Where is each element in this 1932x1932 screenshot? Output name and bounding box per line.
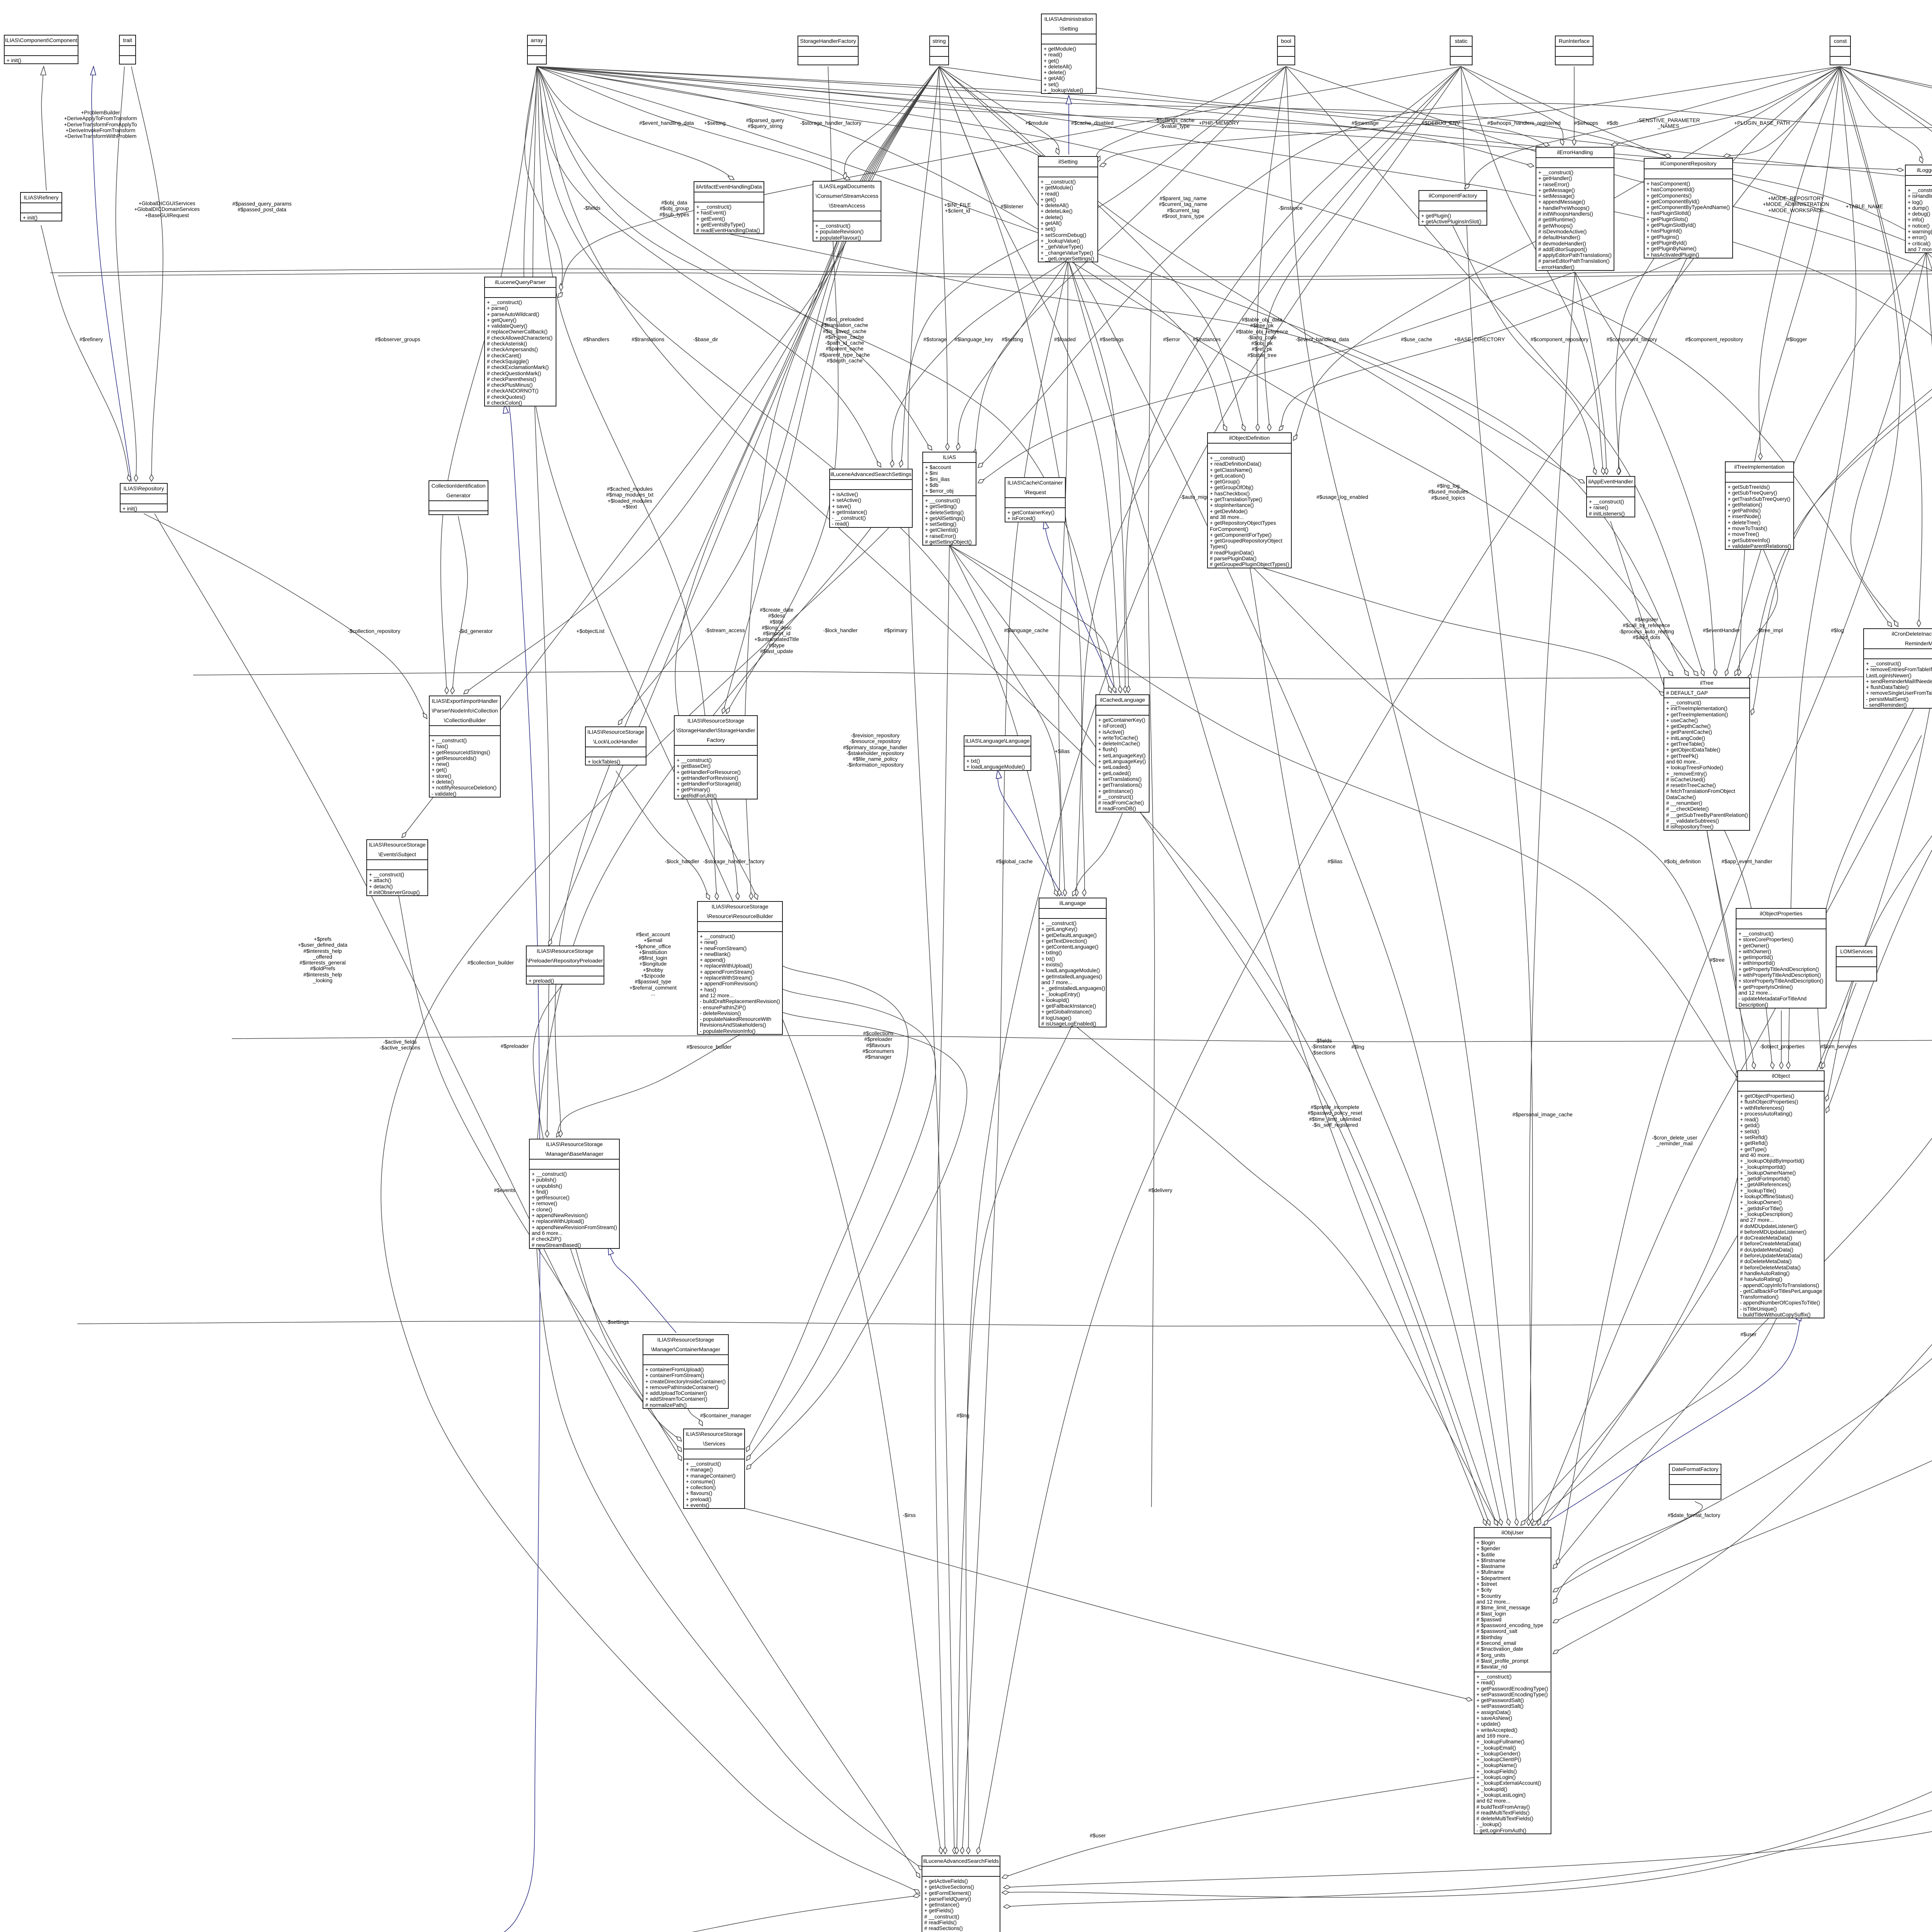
wire ResourceBuilder-BaseManager — [556, 1034, 740, 1137]
label #$register — [1619, 617, 1674, 640]
wire string-ilErrorHandling — [939, 66, 1549, 145]
label #$whoops — [1574, 120, 1598, 126]
wire ilObjectDefinition-ilTree — [1249, 564, 1665, 696]
label #$component_repository — [1531, 337, 1588, 342]
label #$event_handling_data — [639, 120, 694, 126]
label #$translations — [632, 337, 665, 342]
class RS_SHF — [674, 715, 758, 799]
wire ilObject-ilObjUser — [1532, 1311, 1781, 1526]
label #$parent_tag_name — [1159, 196, 1207, 219]
label #$component_factory — [1607, 337, 1657, 342]
wire ilSetting-AdminSetting-inherit — [1068, 95, 1069, 155]
wire ilErrorHandling-ilTree — [1575, 272, 1716, 676]
wire ilLogger-ilRbacAdmin — [1926, 252, 1932, 772]
wire array-ilComponentRepository — [537, 66, 1671, 156]
label #$table_obj_data — [1236, 317, 1288, 358]
label #$DEBUG_ENV — [1422, 120, 1460, 126]
label #$app_event_handler — [1721, 859, 1772, 864]
wire ilObjectProperties-ilObject — [1781, 1010, 1782, 1069]
label -$object_properties — [1760, 1044, 1804, 1049]
wire ILIAS-ilObject — [949, 545, 1740, 1082]
wire bus-4 — [232, 1036, 1932, 1042]
class BaseManager — [529, 1139, 620, 1249]
wire LOMServices-ilObject — [1822, 983, 1856, 1069]
wire const-ilObjectDefinition — [1293, 66, 1840, 440]
wire string-ilTree — [939, 66, 1698, 676]
label #$resource_builder — [687, 1044, 731, 1050]
wire bus-5 — [77, 1321, 1797, 1326]
wire const-ilAppEventHandler — [1616, 66, 1840, 474]
wire DateFormatFactory-ilObjUser — [1553, 1501, 1702, 1604]
label +$prefs — [298, 936, 347, 983]
wire string-ilObjUser — [939, 66, 1509, 1526]
label -$lock_handler — [665, 859, 699, 864]
wire ilTree-ilObjUser — [1521, 830, 1748, 1526]
wire bus-3 — [193, 672, 1932, 679]
class StorageHandlerFactory — [798, 36, 859, 65]
wire ILIAS-SearchFields — [935, 545, 949, 1854]
label -$cron_delete_user — [1652, 1135, 1697, 1147]
wire string-StreamAccess — [844, 66, 939, 179]
label #$events — [494, 1187, 515, 1193]
label #$preloader — [501, 1043, 529, 1049]
wire ilLanguage-LangLanguage-inherit — [998, 770, 1063, 896]
wire ilLanguage-ilObjUser — [1073, 1024, 1498, 1526]
wire ContainerManager-Services — [685, 1405, 702, 1426]
label #$error — [1163, 337, 1180, 342]
label #$loaded — [1054, 337, 1076, 342]
wire array-ilCron — [537, 66, 1892, 627]
wire bool-ilObjectDefinition — [1257, 66, 1286, 431]
wire Services-ilObjUser — [714, 1501, 1472, 1700]
wire LockHandler-ResourceBuilder — [616, 771, 709, 900]
wire AdvQueryParser-SearchFields — [442, 1895, 920, 1932]
wire bool-ilTree — [1286, 66, 1704, 676]
label #$profile_incomplete — [1308, 1104, 1362, 1128]
wire ilDBInterface-SearchFields — [1002, 102, 1932, 1897]
label #$personal_image_cache — [1512, 1112, 1573, 1117]
label #$settings — [1100, 337, 1124, 342]
class Repository — [120, 483, 168, 512]
wire string-ResourceBuilder — [675, 66, 939, 900]
class string — [929, 36, 949, 65]
label #$primary — [884, 628, 907, 633]
label -$auto_migrate — [1180, 494, 1215, 500]
label #$logger — [1787, 337, 1807, 342]
wire const-ilRbacAdmin2 — [1840, 66, 1932, 772]
wire ilSetting-ilObjUser — [1068, 260, 1486, 1526]
wire ilDBInterface-ILIAS — [978, 102, 1932, 468]
wire ilErrorHandling-ilAppEventHandler — [1575, 272, 1607, 474]
wire ilObjectDIC-ilObject — [1817, 226, 1932, 1069]
class ilArtifact — [694, 181, 764, 234]
label -$base_dir — [693, 337, 718, 342]
wire ilLogger-ilObjUser — [1544, 252, 1932, 1526]
wire const-ilComponentRepository2 — [1723, 66, 1840, 156]
wire ilTree-ilObject — [1707, 830, 1754, 1069]
class ilAppEventHandler — [1586, 476, 1635, 517]
label #$create_date — [754, 607, 799, 654]
wire array-SearchSettings — [537, 66, 881, 467]
wire static-ilAppEventHandler — [1461, 66, 1604, 474]
class StreamAccess — [813, 181, 881, 241]
class Services — [683, 1429, 745, 1509]
class ilComponentFactory — [1418, 190, 1487, 226]
wire string-Subject — [402, 66, 939, 838]
wire static-SearchFields — [966, 66, 1461, 1854]
wire AdvQueryParser-QueryParser-inherit — [398, 402, 540, 1932]
label #$cache_disabled — [1071, 120, 1114, 126]
label -$collection_repository — [348, 628, 400, 634]
wire string-ILIAS — [939, 66, 947, 450]
wire Subject-Services — [397, 889, 682, 1452]
label +ProblemBuilder — [64, 110, 137, 139]
label #$date_format_factory — [1668, 1512, 1720, 1518]
class bool — [1277, 36, 1295, 65]
label +$objectList — [577, 628, 605, 634]
label #$refinery — [80, 337, 103, 342]
wire StorageHandlerFactory-RS_SHF — [726, 66, 838, 714]
wire array-StreamAccess — [537, 66, 850, 180]
wire ilSetting-ilTree — [1068, 260, 1673, 676]
wire ilSetting-ILIAS — [957, 260, 1068, 450]
wire const-SearchFields — [978, 66, 1840, 1854]
class DateFormatFactory — [1669, 1464, 1721, 1500]
wire trait-Repository-2 — [131, 66, 163, 481]
label #$lom_services — [1820, 1044, 1857, 1049]
wire ilComponentRepository-ilObjectDefinition — [1279, 255, 1688, 431]
wire static-ilObjectDefinition — [1265, 66, 1461, 431]
label #$language_key — [954, 337, 993, 342]
wire static-ilObjUser — [1461, 66, 1532, 1526]
label #$user — [1740, 1332, 1757, 1337]
wire ilRbacAdmin-ilObjUser — [1553, 907, 1932, 1654]
label +$INI_FILE — [944, 202, 971, 214]
wire ilObjUser-SearchFields — [1002, 1777, 1474, 1878]
class RunInterface — [1555, 36, 1594, 65]
wire array-ilObjUser — [537, 66, 1498, 1526]
wire bool-ILIAS — [974, 66, 1286, 456]
wire SearchSettings-SearchFields-1 — [536, 528, 923, 1870]
wire SearchSettings-SearchFields-2 — [381, 528, 920, 1893]
class ilObjectProperties — [1736, 908, 1827, 1009]
wire array-BaseManager — [533, 66, 549, 1137]
label #$passed_query_params — [232, 201, 291, 213]
wire bus-2 — [58, 273, 1932, 280]
wire StreamAccess-ResourceBuilder — [745, 235, 847, 900]
label +$setting — [704, 120, 726, 126]
label #$global_cache — [996, 859, 1032, 864]
class ResourceBuilder — [697, 901, 783, 1035]
label #$log — [1831, 628, 1844, 633]
label +$module — [1025, 120, 1048, 126]
wire ilSetting-ilCachedLanguage — [1068, 260, 1125, 693]
label #$eventHandler — [1703, 628, 1740, 633]
wire static-ilErrorHandling — [1461, 66, 1563, 145]
class CollectionBuilder — [429, 696, 501, 798]
wire static-ilLanguage — [1082, 66, 1461, 896]
class AdminSetting — [1041, 14, 1097, 94]
label -$fields — [1311, 1038, 1336, 1056]
wire array-ILIAS — [537, 66, 932, 450]
wire string-LockHandler — [618, 66, 939, 725]
wire const-ilSetting — [1100, 66, 1840, 166]
class SearchSettings — [829, 469, 913, 528]
wire string-ilSetting — [939, 66, 1059, 155]
class ilTreeImplementation — [1725, 461, 1794, 550]
wire ilRbacReview-SearchFields — [1003, 572, 1932, 1907]
label #$db — [1607, 120, 1618, 126]
class ContainerManager — [643, 1334, 729, 1409]
wire ILIAS-ilObjUser — [949, 545, 1490, 1526]
wire Repository-Component-inherit — [92, 66, 131, 481]
wire vert-1 — [1148, 272, 1155, 1507]
label -$lock_handler — [823, 628, 857, 633]
label +GlobalDICGUIServices — [134, 201, 200, 218]
wire static-ilCachedLanguage — [1126, 66, 1461, 693]
wire static-ilRbacReview — [1461, 66, 1932, 412]
wire array-ilObjectDIC — [537, 66, 1932, 193]
wire array-ilObjectDefinition — [537, 66, 1227, 431]
wire Repository-SearchFields — [155, 514, 920, 1878]
connector tips (diamonds / inheritance arrows) — [559, 284, 563, 291]
wire ResourceBuilder-Services-3 — [747, 1012, 967, 1469]
wire array-QueryParser — [525, 66, 562, 291]
wire ILIAS-ilCachedLanguage — [949, 545, 1115, 693]
wire const-ilTree — [1739, 66, 1840, 676]
label -$stream_access — [705, 628, 745, 633]
wire bus-1 — [50, 269, 1932, 277]
label #$cached_modules — [606, 486, 653, 510]
label -SENSTIVE_PARAMETER — [1637, 117, 1700, 129]
wire ILIAS-ilLanguage — [949, 545, 1060, 896]
wire string-RS_SHF — [723, 66, 939, 714]
class ilObject — [1737, 1070, 1825, 1318]
label #$tree — [1740, 1112, 1755, 1117]
class ilLogger — [1905, 165, 1932, 253]
wire string-CollectionBuilder — [464, 66, 939, 694]
wire array-SearchFields — [524, 66, 941, 1854]
label -$tree_impl — [1757, 628, 1783, 633]
wire ilComponentFactory-ilAppEventHandler — [1453, 226, 1596, 474]
label #$component_repository — [1685, 337, 1743, 342]
wire const-ilComponentFactory — [1464, 66, 1840, 189]
class RepositoryPreloader — [526, 946, 604, 985]
class Component — [4, 35, 78, 64]
label #$lng_log — [1428, 483, 1468, 501]
label #$user — [1090, 1833, 1106, 1838]
class ilCachedLanguage — [1095, 694, 1150, 813]
wire ilLanguage-SearchFields — [957, 1024, 1073, 1854]
wire int-ilObject — [1826, 66, 1932, 1113]
class const — [1830, 36, 1851, 65]
label #$whoops_handlers_registered — [1487, 120, 1561, 126]
class ilSetting — [1038, 156, 1098, 262]
wire array-ilSetting — [537, 66, 1045, 158]
wire ResourceBuilder-Services-1 — [747, 966, 908, 1452]
wire bool-ilSetting — [1096, 66, 1286, 162]
class LOMServices — [1836, 946, 1877, 981]
wire bool-ilRbacReview — [1286, 66, 1932, 412]
wire array-ilErrorHandling — [537, 66, 1534, 166]
label +BASE_DIRECTORY — [1454, 337, 1505, 342]
label -$revision_repository — [843, 733, 907, 768]
class Request — [1005, 477, 1066, 522]
label -$event_handling_data — [1296, 337, 1349, 342]
wire string-SearchFields — [908, 66, 954, 1854]
class CollectionIdGen — [429, 480, 488, 515]
wire static-QueryParser — [558, 66, 1461, 298]
label #$tree — [1710, 957, 1725, 963]
label #$instances — [1193, 337, 1221, 342]
label -$instance — [1279, 205, 1303, 211]
wire const-ilErrorHandling — [1611, 66, 1840, 145]
wire ilCachedLanguage-ilLanguage — [1073, 813, 1122, 896]
label #$ilias — [1328, 859, 1343, 864]
label #$lng — [956, 1413, 969, 1418]
wire const-ilObject — [1788, 66, 1856, 1069]
label -$fields — [583, 205, 600, 211]
wire int-ilTree — [1748, 66, 1932, 680]
label -$settings — [606, 1319, 629, 1325]
class QueryParser — [484, 277, 556, 406]
wire const-ilTreeImplementation — [1759, 66, 1840, 460]
wire RunInterface-ilErrorHandling — [1574, 66, 1575, 145]
wire array-ilLanguage — [537, 66, 1057, 896]
wire int-ilObjUser — [1553, 66, 1932, 1592]
label #$use_cache — [1401, 337, 1432, 342]
class ilTree — [1663, 677, 1750, 831]
label #$collections — [862, 1031, 894, 1060]
wire ilObjectDefinition-ilObject — [1249, 564, 1739, 1078]
wire string-RepositoryPreloader — [545, 66, 939, 953]
wire Repository-CollectionBuilder — [144, 514, 427, 719]
wire array-ilTree — [537, 66, 1689, 676]
wire ilDBInterface-ilObjUser — [1553, 102, 1932, 1623]
wire ilCron-ilObjUser — [1538, 735, 1922, 1526]
wire ilComponentRepository-ilAppEventHandler — [1618, 255, 1688, 474]
class ilCron — [1863, 628, 1932, 709]
wire ilSetting-SearchFields — [962, 260, 1068, 1854]
wire ilCachedLanguage-Request-inherit — [1044, 520, 1117, 693]
wire const-ilObjectDIC — [1840, 66, 1932, 189]
wire ilDBInterface-ilTree — [1752, 102, 1932, 715]
wire RepositoryPreloader-Services — [533, 980, 682, 1461]
label +$ilias — [1055, 748, 1070, 754]
wire array-CollectionBuilder — [441, 66, 537, 694]
label -$settings_cache — [1155, 117, 1195, 129]
wire string-ilObjectDefinition — [939, 66, 1245, 431]
wire const-ilLogger — [1840, 66, 1922, 163]
wire string-ilCachedLanguage — [939, 66, 1121, 693]
class ILIAS — [922, 452, 976, 546]
wire ilLogger-ilCron — [1851, 252, 1926, 627]
label #$observer_groups — [375, 337, 420, 342]
wire ilErrorHandling-ILIAS — [978, 272, 1575, 483]
wire const-ilObjUser — [1557, 66, 1900, 1565]
wire array-ilCachedLanguage — [537, 66, 1111, 693]
wire const-ilRbacAdmin — [1840, 66, 1932, 772]
class ilErrorHandling — [1536, 147, 1614, 271]
wire string-ilLanguage — [939, 66, 1082, 896]
class ilLanguage — [1039, 898, 1107, 1027]
wire ilObjectDefinition-ilObjUser — [1249, 564, 1502, 1526]
label #$lng — [1351, 1044, 1364, 1050]
class ilObjUser — [1474, 1527, 1551, 1834]
label +PLUGIN_BASE_PATH — [1734, 120, 1790, 126]
wire bool-SearchSettings — [900, 66, 1286, 467]
label -$active_fields — [379, 1039, 420, 1051]
wire ContainerManager-BaseManager-inherit — [608, 1246, 676, 1333]
wire BaseManager-Services — [574, 1243, 682, 1441]
wire Refinery-Repository — [41, 225, 130, 481]
class trait — [119, 35, 136, 65]
wire const-ilCron — [1840, 66, 1922, 627]
wire array-ilLogger — [537, 66, 1903, 170]
wire ilRbacReview-ilObject — [1826, 581, 1932, 1101]
class ilObjectDefinition — [1207, 432, 1292, 568]
wire array-ResourceBuilder — [537, 66, 717, 900]
label #$language_cache — [1004, 628, 1049, 633]
label +PHP_MEMORY — [1199, 120, 1239, 126]
class Refinery — [20, 192, 62, 221]
label #$storage — [923, 337, 947, 342]
wire ilRbacReview-ilObjUser — [1553, 581, 1932, 1569]
label #$usage_log_enabled — [1316, 494, 1368, 500]
wire trait-Repository-1 — [116, 66, 137, 481]
wire ilArtifact-ilAppEventHandler — [730, 234, 1585, 483]
class ilComponentRepository — [1644, 158, 1733, 259]
wire ilSetting-SearchSettings — [892, 260, 1068, 467]
label #$delivery — [1148, 1187, 1172, 1193]
label -$storage_handler_factory — [800, 120, 862, 126]
class LangLanguage — [964, 735, 1031, 771]
label -$storage_handler_factory — [703, 859, 765, 864]
class static — [1450, 36, 1473, 65]
wire Refinery-Component — [41, 66, 46, 190]
wire ilLogger-ilRbacReview — [1926, 252, 1932, 412]
label #$listener — [1001, 204, 1024, 209]
label #$setting — [1002, 337, 1023, 342]
wire ilLogger-ilTree — [1726, 252, 1926, 676]
wire ilSetting-ilLanguage2 — [1059, 260, 1068, 896]
label -$irss — [903, 1512, 915, 1518]
class array — [527, 35, 547, 65]
wire array-ilRbacReview — [537, 66, 1932, 412]
class LockHandler — [585, 726, 646, 765]
wire const-ilRbacReview — [1840, 66, 1932, 412]
label #$ext_account — [629, 932, 677, 997]
wire array-ilRbacAdmin — [537, 66, 1932, 772]
label #$parsed_query — [746, 117, 784, 129]
class Subject — [366, 839, 428, 896]
wire array-ilArtifact — [537, 66, 734, 180]
wire ResourceBuilder-Services-2 — [747, 989, 935, 1461]
wire bool-ilObjUser — [1286, 66, 1517, 1526]
label +TABLE_NAME — [1846, 204, 1883, 209]
wire CollectionIdGen-CollectionBuilder — [452, 516, 468, 694]
wire RS_SHF-ResourceBuilder — [716, 798, 738, 900]
label #$oc_preloaded — [820, 316, 870, 364]
wire ilObjUser-ilObject-inherit — [1542, 1312, 1802, 1526]
wire ilErrorHandling-ilObjUser — [1529, 272, 1575, 1526]
label -$id_generator — [459, 628, 493, 634]
wire ilRbacAdmin-SearchFields — [1003, 907, 1932, 1888]
label #$collection_builder — [468, 960, 514, 966]
label #$container_manager — [700, 1413, 751, 1418]
wire ilAppEventHandler-ilObject — [1611, 521, 1773, 1069]
label #$message — [1352, 120, 1379, 126]
